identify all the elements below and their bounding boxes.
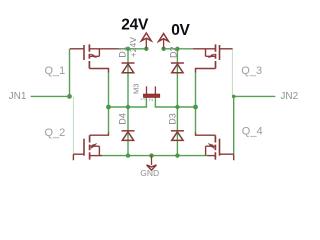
junction D3 to ground rail (175, 153, 179, 157)
junction left bridge output node (106, 105, 111, 110)
wire: JN2 column down to Q4 gate (233, 96, 235, 154)
diode D1 (122, 63, 135, 73)
supply symbol 0V arrow (159, 34, 169, 49)
svg-text:JN2: JN2 (280, 91, 298, 102)
junction D2 to 0V rail (175, 47, 179, 51)
transistor Q1 (P-ch high side left) (70, 44, 119, 72)
wire: top 24V rail left segment (119, 48, 148, 50)
svg-text:Q_4: Q_4 (242, 126, 263, 138)
wire: thin link Q3 gate down to JN2 (231, 49, 233, 96)
junction JN2 wire to gate column (232, 95, 236, 99)
diode D2 (171, 63, 184, 73)
svg-text:JN1: JN1 (9, 91, 27, 102)
svg-text:D3: D3 (167, 113, 177, 125)
svg-text:0V: 0V (171, 22, 190, 39)
wire: D1/D4 column (127, 49, 129, 156)
wire: right half-bridge center column (195, 72, 197, 134)
wire: M3 pin2 vertical (154, 94, 156, 99)
wire: D2/D3 column (176, 49, 178, 156)
connector M3 (motor pin header) (143, 86, 159, 97)
supply symbol +24V arrow (141, 33, 151, 49)
junction JN1 wire to Q1 gate column (67, 94, 72, 99)
junction D1 anode to 24V rail (126, 47, 130, 51)
junction D1/D4 column to center rail (126, 105, 130, 109)
transistor Q3 (P-ch high side right, mirrored) (193, 44, 233, 72)
diode D4 (122, 131, 135, 141)
wire: JN1 horizontal (31, 95, 70, 97)
junction D2/D3 column to center rail (175, 105, 179, 109)
svg-text:M3: M3 (132, 84, 141, 94)
diode D3 (171, 131, 184, 141)
svg-text:24V: 24V (121, 17, 149, 34)
wire: thin link JN1 to Q2 gate (72, 97, 74, 154)
wire: left half-bridge center column (108, 72, 110, 134)
ground symbol GND (147, 156, 157, 171)
svg-text:Q_3: Q_3 (241, 65, 262, 77)
wire: center rail right segment to M3 pin2 (155, 99, 195, 108)
svg-text:Q_1: Q_1 (45, 65, 66, 77)
wire: JN2 horizontal (234, 95, 276, 97)
wire: M3 pin1 vertical (146, 94, 148, 99)
svg-text:D4: D4 (117, 113, 127, 125)
junction right bridge output node (193, 105, 198, 110)
wire: center rail left segment to M3 pin1 (109, 99, 147, 108)
svg-text:D2: D2 (168, 46, 178, 58)
svg-text:D1: D1 (117, 46, 127, 58)
svg-text:1: 1 (141, 98, 147, 101)
junction GND stem to ground rail (149, 153, 153, 157)
svg-text:+24V: +24V (128, 37, 138, 57)
transistor Q4 (N-ch low side right, mirrored) (196, 133, 234, 161)
wire: bottom GND rail (102, 155, 208, 157)
wire: Q1 gate column (69, 49, 71, 97)
svg-text:2: 2 (149, 98, 155, 101)
junction D4 to ground rail (126, 153, 130, 157)
transistor Q2 (N-ch low side left) (73, 133, 108, 161)
junction 24V supply stem to rail (144, 47, 148, 51)
junction 0V supply stem to rail (161, 47, 165, 51)
wire: top 0V rail right segment (163, 48, 193, 50)
svg-text:GND: GND (140, 168, 159, 178)
svg-text:Q_2: Q_2 (45, 127, 66, 139)
